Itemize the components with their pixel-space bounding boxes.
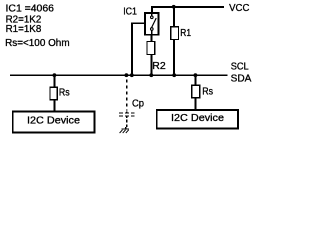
- svg-text:R2: R2: [152, 61, 166, 72]
- wire IC1 top pin to VCC rail: [151, 6, 153, 13]
- switch IC1 bottom contact circle: [151, 28, 154, 31]
- analog switch IC1 box: [145, 13, 158, 35]
- junction dot R1: [172, 73, 176, 77]
- resistor Rs right: [192, 85, 200, 97]
- svg-text:Rs=<100 Ohm: Rs=<100 Ohm: [5, 38, 70, 49]
- wire bus to left Rs: [53, 75, 55, 87]
- capacitor Cp top stub: [126, 111, 128, 113]
- right I2C Device box: [157, 110, 238, 129]
- svg-text:Rs: Rs: [59, 87, 70, 98]
- wire left Rs to left device: [53, 100, 55, 112]
- ground hatch 1: [120, 130, 123, 133]
- wire IC1 control pin horizontal: [132, 22, 145, 24]
- svg-text:R1: R1: [180, 28, 191, 39]
- dashed wire capacitor to ground: [126, 119, 128, 127]
- svg-text:SDA: SDA: [231, 74, 252, 85]
- wire right Rs to right device: [194, 98, 196, 110]
- wire R1 top pin: [173, 7, 175, 27]
- ground hatch 2: [123, 130, 126, 133]
- resistor Rs left: [50, 87, 57, 100]
- svg-text:I2C Device: I2C Device: [27, 116, 80, 127]
- capacitor Cp top plate (dashed): [119, 112, 134, 114]
- ground bar: [121, 128, 129, 130]
- svg-text:IC1 =4066: IC1 =4066: [6, 4, 55, 15]
- resistor R1: [171, 27, 179, 40]
- junction dot R2: [149, 73, 153, 77]
- junction dot right Rs: [194, 73, 198, 77]
- bus wire SCL/SDA: [10, 74, 228, 76]
- junction dot control wire: [130, 73, 134, 77]
- wire bus to right Rs: [194, 75, 196, 85]
- switch IC1 top contact stub: [151, 13, 153, 16]
- svg-text:VCC: VCC: [229, 3, 249, 14]
- wire IC1 bottom pin to R2: [150, 35, 152, 42]
- switch IC1 blade: [152, 18, 157, 28]
- VCC rail wire: [151, 6, 224, 8]
- wire R2 bottom to bus: [150, 54, 152, 75]
- ground hatch 3: [126, 130, 129, 133]
- svg-text:I2C Device: I2C Device: [171, 113, 224, 124]
- junction dot VCC/R1: [172, 5, 176, 9]
- svg-text:Cp: Cp: [132, 99, 144, 110]
- wire R1 bottom to bus: [173, 39, 175, 75]
- capacitor Cp bottom stub: [126, 116, 128, 119]
- svg-text:IC1: IC1: [123, 6, 137, 17]
- switch IC1 top contact circle: [151, 16, 154, 19]
- ground stub: [125, 127, 127, 129]
- svg-text:Rs: Rs: [202, 87, 213, 98]
- junction dot left Rs: [53, 73, 57, 77]
- switch IC1 bottom contact stub: [151, 30, 153, 35]
- junction dot Cp: [125, 73, 129, 77]
- svg-text:R1=1K8: R1=1K8: [6, 24, 42, 35]
- capacitor Cp bottom plate (dashed): [119, 115, 134, 117]
- wire IC1 control down to bus: [131, 22, 133, 75]
- svg-text:SCL: SCL: [231, 61, 249, 72]
- left I2C Device box: [13, 112, 95, 133]
- resistor R2: [147, 42, 155, 55]
- stray capacitance Cp dashed wire from bus: [126, 80, 128, 111]
